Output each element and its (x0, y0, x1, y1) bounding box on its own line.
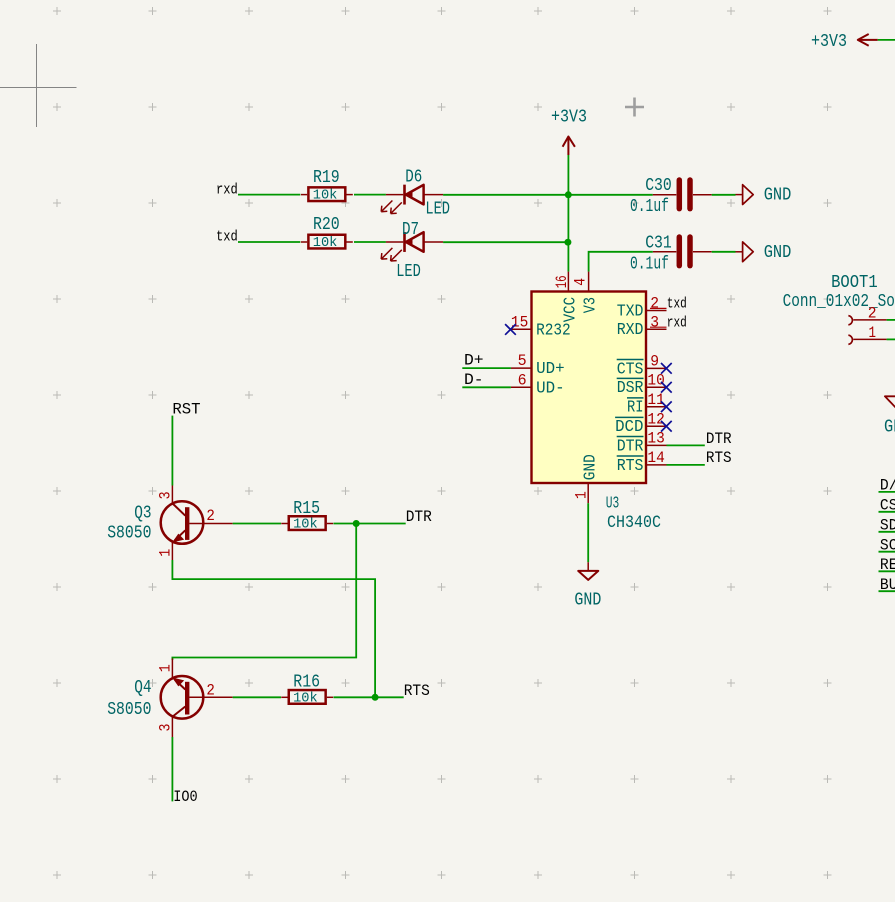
wire BUSY (879, 590, 895, 592)
wire D7 to junction (443, 241, 568, 243)
capacitor C30 (630, 176, 712, 217)
svg-text:txd: txd (216, 229, 238, 246)
LED D7 (381, 220, 443, 282)
wire SCK (879, 551, 895, 553)
power symbol +3V3 (above U3) (551, 108, 587, 155)
svg-text:0.1uf: 0.1uf (630, 197, 669, 217)
resistor R16 (281, 673, 333, 707)
wire R16 to RTS (334, 696, 404, 698)
editor crosshair cursor (0, 44, 77, 127)
pin 6 UD- (511, 371, 565, 398)
wire R15 to DTR (334, 523, 406, 525)
svg-text:DTR: DTR (706, 430, 732, 448)
svg-text:14: 14 (647, 449, 664, 467)
pin 10 DSR (617, 371, 667, 398)
BOOT1 pin 2 (848, 304, 886, 325)
svg-text:DSR: DSR (617, 379, 644, 398)
wire D- to pin 6 (462, 386, 511, 388)
capacitor C31 (630, 233, 712, 274)
wire +3V3 to VCC pin (567, 155, 569, 272)
wire Q3 emitter to RTS junction (172, 560, 375, 697)
svg-text:Conn_01x02_Soc: Conn_01x02_Soc (783, 292, 895, 312)
pin 15 R232 (no-connect) (510, 314, 570, 341)
svg-text:1: 1 (572, 491, 590, 499)
resistor R15 (281, 499, 333, 533)
pin 16 VCC (553, 272, 580, 323)
svg-text:10: 10 (647, 371, 664, 389)
svg-text:2: 2 (868, 304, 877, 322)
svg-text:V3: V3 (581, 297, 600, 313)
svg-text:GND: GND (764, 185, 792, 206)
svg-text:RTS: RTS (404, 682, 430, 700)
svg-text:txd: txd (667, 296, 687, 313)
wire D/C (879, 491, 895, 493)
wire SDI (879, 531, 895, 533)
svg-text:U3: U3 (606, 495, 620, 514)
wire R20 to D7 (354, 241, 386, 243)
junction at rxd/VCC (565, 191, 572, 198)
svg-text:CTS: CTS (617, 360, 644, 379)
svg-text:DTR: DTR (406, 508, 432, 526)
svg-text:D6: D6 (405, 167, 422, 187)
wire Q3 base to R15 (233, 523, 281, 525)
svg-text:RXD: RXD (617, 321, 644, 340)
svg-text:5: 5 (518, 352, 527, 370)
svg-text:6: 6 (518, 371, 527, 389)
wire txd to R20 (238, 241, 300, 243)
wire CS (879, 511, 895, 513)
wire R19 to D6 (354, 194, 386, 196)
pin 9 CTS (617, 353, 667, 380)
GND flag at C31 (736, 242, 792, 263)
svg-text:1: 1 (157, 549, 175, 557)
pin 14 RTS (617, 449, 667, 476)
svg-text:DTR: DTR (617, 437, 644, 456)
pin 5 UD+ (511, 352, 565, 379)
svg-text:2: 2 (650, 295, 659, 313)
svg-text:S8050: S8050 (107, 700, 151, 720)
grid origin marker (625, 98, 644, 117)
svg-text:GND: GND (764, 242, 792, 263)
transistor Q4 S8050 (107, 659, 233, 738)
svg-text:R16: R16 (293, 673, 320, 693)
svg-text:4: 4 (572, 278, 590, 286)
svg-text:0.1uf: 0.1uf (630, 254, 669, 274)
resistor R20 (301, 215, 353, 251)
svg-text:DCD: DCD (615, 418, 643, 437)
svg-text:11: 11 (647, 391, 664, 409)
svg-text:D7: D7 (402, 220, 419, 240)
BOOT1 pin 1 (848, 324, 886, 345)
wire pin 13 to DTR (667, 444, 705, 446)
wire D6 to C30 (443, 194, 653, 196)
svg-text:RI: RI (627, 399, 644, 418)
svg-text:Q4: Q4 (134, 678, 151, 698)
svg-text:3: 3 (157, 724, 175, 732)
svg-text:15: 15 (511, 314, 528, 332)
power symbol +3V3 (top right) (811, 32, 878, 52)
wire C31 to GND (712, 251, 736, 253)
pin 3 RXD (617, 313, 667, 340)
svg-text:3: 3 (650, 313, 659, 331)
pin 4 V3 (572, 272, 601, 314)
svg-text:BOOT1: BOOT1 (831, 273, 878, 293)
svg-text:GND: GND (581, 454, 600, 480)
svg-text:GND: GND (884, 416, 895, 437)
svg-text:+3V3: +3V3 (811, 32, 847, 52)
LED D6 (381, 167, 450, 219)
wire BOOT1 pin 1 (887, 338, 895, 340)
wire V3 pin to C31 (589, 252, 653, 272)
junction at txd/VCC (564, 239, 571, 246)
wire Q4 base to R16 (233, 696, 281, 698)
svg-text:CH340C: CH340C (607, 513, 661, 533)
svg-text:rxd: rxd (216, 181, 238, 198)
wire rxd to R19 (238, 194, 300, 196)
GND power symbol (right edge, partial) (884, 396, 895, 437)
svg-text:LED: LED (396, 262, 421, 282)
IC U3 CH340C body (532, 292, 647, 484)
svg-text:10k: 10k (293, 518, 318, 533)
no-connect X at pin 9 (661, 363, 672, 374)
svg-text:UD-: UD- (536, 379, 565, 398)
junction at DTR (353, 520, 360, 527)
GND flag at C30 (736, 185, 792, 206)
svg-text:RTS: RTS (706, 449, 732, 467)
wire DTR junction down to Q4 emitter (172, 524, 356, 661)
svg-text:Q3: Q3 (134, 504, 151, 524)
svg-text:R20: R20 (313, 215, 340, 235)
svg-text:rxd: rxd (667, 314, 687, 331)
svg-text:IO0: IO0 (173, 788, 198, 806)
svg-text:D-: D- (464, 371, 484, 389)
svg-text:+3V3: +3V3 (551, 108, 587, 128)
svg-text:R15: R15 (293, 499, 320, 519)
svg-text:10k: 10k (313, 236, 338, 251)
svg-text:13: 13 (647, 430, 664, 448)
svg-text:UD+: UD+ (536, 360, 565, 379)
svg-text:12: 12 (647, 410, 664, 428)
svg-text:VCC: VCC (562, 297, 581, 322)
svg-text:16: 16 (553, 275, 571, 288)
wire RST to Q3 collector (171, 416, 173, 486)
svg-text:1: 1 (869, 324, 877, 342)
svg-text:GND: GND (574, 590, 601, 611)
GND power symbol below U3 (574, 562, 601, 610)
svg-text:9: 9 (650, 353, 659, 371)
wire C30 to GND (712, 194, 736, 196)
transistor Q3 S8050 (107, 486, 233, 561)
svg-text:S8050: S8050 (107, 524, 151, 544)
svg-text:2: 2 (206, 682, 215, 700)
svg-text:RTS: RTS (617, 457, 644, 476)
svg-text:RST: RST (172, 400, 200, 418)
pin 1 GND (572, 454, 600, 503)
svg-text:D+: D+ (464, 352, 484, 370)
svg-text:3: 3 (157, 491, 175, 499)
svg-text:LED: LED (425, 199, 450, 219)
junction at RTS (372, 694, 379, 701)
wire D+ to pin 5 (462, 367, 511, 369)
no-connect X at pin 15 (505, 324, 516, 335)
svg-text:10k: 10k (293, 691, 318, 706)
svg-text:1: 1 (157, 664, 175, 672)
wire BOOT1 pin 2 (887, 319, 895, 321)
no-connect X at pin 12 (661, 421, 672, 432)
pin 2 TXD (617, 295, 667, 322)
svg-text:C30: C30 (645, 176, 672, 196)
wire pin 14 to RTS (667, 464, 705, 466)
svg-text:TXD: TXD (617, 302, 644, 321)
svg-text:2: 2 (206, 507, 215, 525)
svg-text:10k: 10k (313, 189, 338, 204)
wire pin1 to GND (587, 503, 589, 562)
svg-text:R232: R232 (536, 321, 571, 340)
wire RES (879, 570, 895, 572)
no-connect X at pin 11 (661, 401, 672, 412)
no-connect X at pin 10 (661, 382, 672, 393)
svg-text:C31: C31 (645, 233, 672, 253)
svg-text:R19: R19 (313, 168, 340, 188)
pin 13 DTR (617, 430, 667, 457)
pin 12 DCD (615, 410, 666, 437)
resistor R19 (301, 168, 353, 204)
wire Q4 collector to IO0 (171, 737, 173, 801)
pin 11 RI (627, 391, 667, 418)
wire to +3V3 (878, 39, 895, 41)
